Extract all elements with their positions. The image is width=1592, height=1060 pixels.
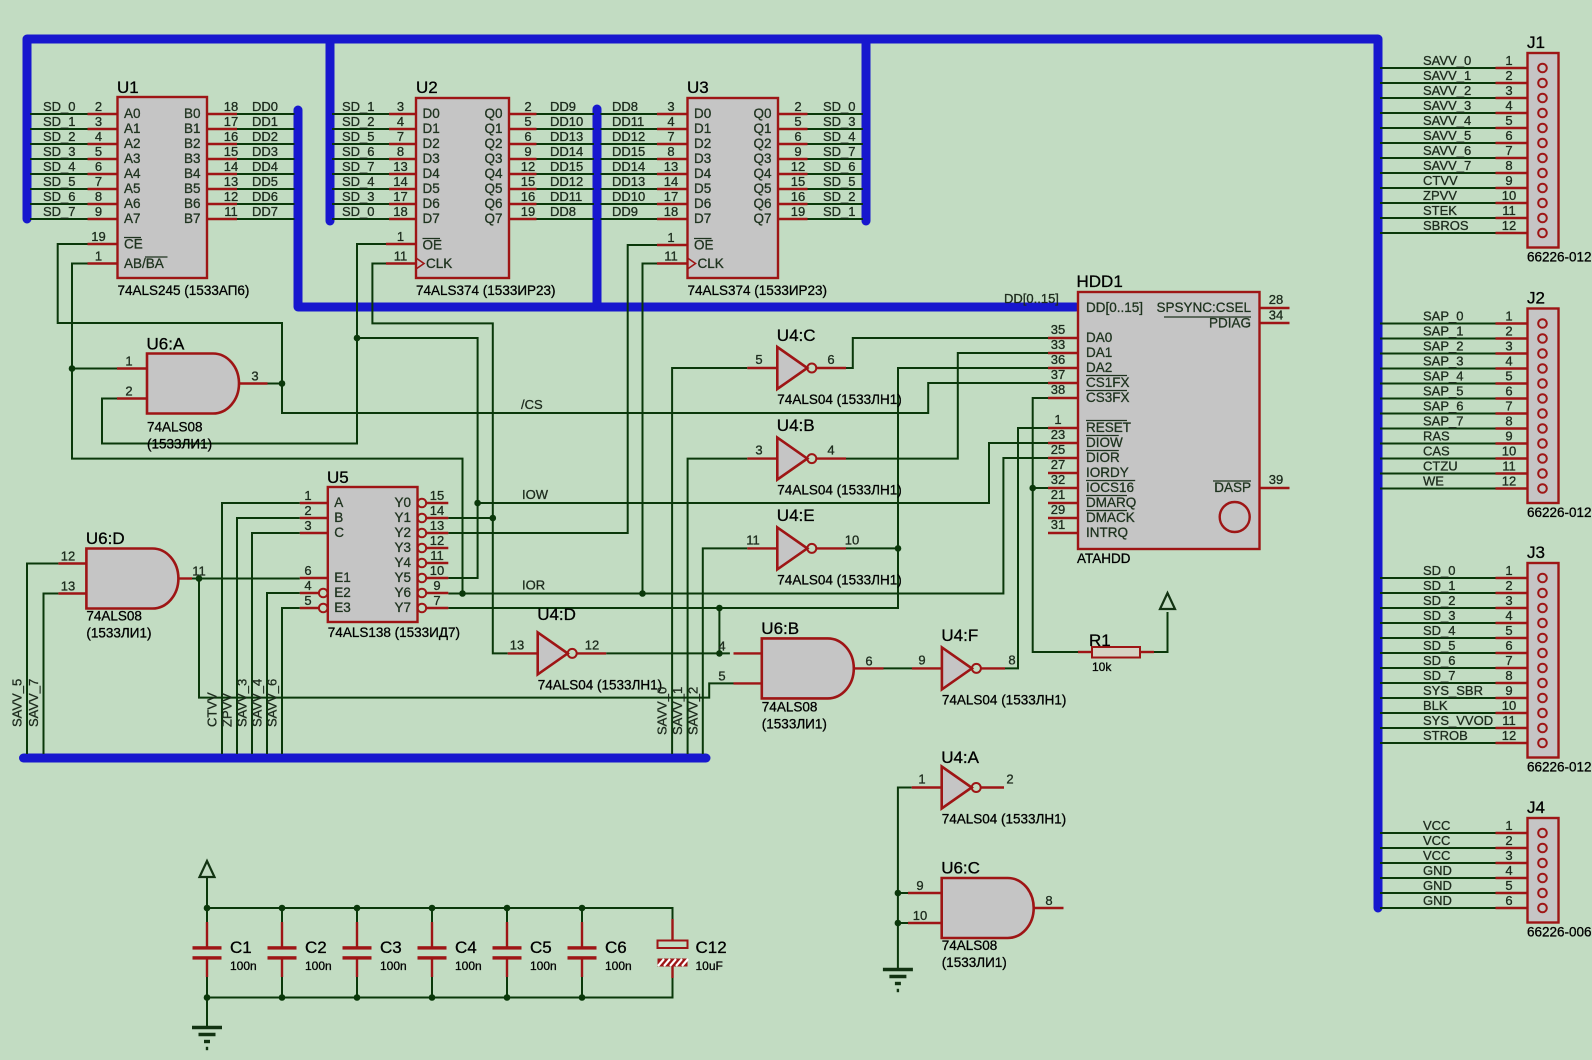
svg-text:8: 8 bbox=[1505, 414, 1512, 429]
svg-text:9: 9 bbox=[95, 204, 102, 219]
svg-text:SD_4: SD_4 bbox=[823, 129, 856, 144]
svg-text:E3: E3 bbox=[334, 600, 351, 615]
svg-text:U4:D: U4:D bbox=[537, 605, 576, 624]
svg-text:66226-012: 66226-012 bbox=[1527, 250, 1592, 265]
svg-text:74ALS08: 74ALS08 bbox=[942, 938, 998, 953]
svg-text:E2: E2 bbox=[334, 585, 351, 600]
svg-text:8: 8 bbox=[1505, 668, 1512, 683]
svg-text:SD_7: SD_7 bbox=[342, 159, 375, 174]
svg-text:CTZU: CTZU bbox=[1423, 459, 1458, 474]
svg-text:SD_5: SD_5 bbox=[823, 174, 856, 189]
svg-text:100n: 100n bbox=[305, 959, 332, 973]
svg-text:2: 2 bbox=[95, 99, 102, 114]
svg-text:SAVV_6: SAVV_6 bbox=[1423, 143, 1471, 158]
svg-text:D4: D4 bbox=[423, 166, 441, 181]
svg-text:A4: A4 bbox=[124, 166, 141, 181]
svg-text:5: 5 bbox=[1505, 623, 1512, 638]
svg-text:18: 18 bbox=[224, 99, 238, 114]
svg-text:SAVV_4: SAVV_4 bbox=[1423, 113, 1471, 128]
svg-text:A5: A5 bbox=[124, 181, 141, 196]
svg-text:12: 12 bbox=[585, 637, 599, 652]
svg-text:74ALS08: 74ALS08 bbox=[762, 700, 818, 715]
wire: net /CS U1.CE - U6:A.3 - HDD1.CS1FX bbox=[58, 244, 1048, 413]
svg-text:AB/BA: AB/BA bbox=[124, 256, 164, 271]
svg-text:7: 7 bbox=[397, 129, 404, 144]
svg-text:3: 3 bbox=[1505, 339, 1512, 354]
svg-text:8: 8 bbox=[397, 144, 404, 159]
svg-text:DD12: DD12 bbox=[550, 174, 583, 189]
svg-text:11: 11 bbox=[664, 249, 678, 264]
svg-text:7: 7 bbox=[667, 129, 674, 144]
svg-text:17: 17 bbox=[393, 189, 407, 204]
svg-text:14: 14 bbox=[430, 503, 444, 518]
inverter U4:D 74ALS04 bbox=[538, 632, 568, 674]
svg-text:32: 32 bbox=[1051, 472, 1065, 487]
svg-text:11: 11 bbox=[1502, 713, 1516, 728]
svg-text:VCC: VCC bbox=[1423, 818, 1450, 833]
svg-text:1: 1 bbox=[397, 229, 404, 244]
svg-text:5: 5 bbox=[304, 593, 311, 608]
svg-text:CTVV: CTVV bbox=[205, 692, 220, 727]
svg-text:DD1: DD1 bbox=[252, 114, 278, 129]
wire: J2 pin wires from bus bbox=[1380, 323, 1496, 325]
svg-text:A6: A6 bbox=[124, 196, 141, 211]
ground below C1 bbox=[192, 1028, 222, 1049]
svg-text:ZPVV: ZPVV bbox=[220, 693, 235, 727]
svg-text:12: 12 bbox=[521, 159, 535, 174]
svg-text:DD7: DD7 bbox=[252, 204, 278, 219]
svg-text:C: C bbox=[334, 525, 344, 540]
svg-text:3: 3 bbox=[1505, 593, 1512, 608]
svg-text:SYS_VVOD: SYS_VVOD bbox=[1423, 713, 1493, 728]
wire: U6:D output to U5.E1 bbox=[192, 578, 300, 580]
svg-text:10: 10 bbox=[1502, 444, 1516, 459]
svg-text:74ALS245 (1533АП6): 74ALS245 (1533АП6) bbox=[118, 283, 250, 298]
svg-text:7: 7 bbox=[95, 174, 102, 189]
wire: net CTVV to U5.A bbox=[222, 503, 300, 754]
svg-text:74ALS04 (1533ЛН1): 74ALS04 (1533ЛН1) bbox=[777, 483, 901, 498]
decoder U5 74ALS138 box bbox=[328, 487, 418, 622]
wire: J4 pin wires from bus bbox=[1380, 832, 1496, 834]
svg-text:D3: D3 bbox=[694, 151, 711, 166]
svg-text:17: 17 bbox=[224, 114, 238, 129]
svg-text:12: 12 bbox=[1502, 728, 1516, 743]
svg-text:D6: D6 bbox=[694, 196, 711, 211]
svg-text:13: 13 bbox=[224, 174, 238, 189]
svg-text:10k: 10k bbox=[1092, 660, 1112, 674]
svg-text:DD8: DD8 bbox=[550, 204, 576, 219]
svg-text:Y7: Y7 bbox=[394, 600, 411, 615]
svg-text:SAP_2: SAP_2 bbox=[1423, 339, 1463, 354]
buffer U1 74ALS245 box bbox=[118, 97, 208, 278]
svg-text:16: 16 bbox=[791, 189, 805, 204]
svg-text:U6:D: U6:D bbox=[86, 529, 125, 548]
svg-text:15: 15 bbox=[224, 144, 238, 159]
wire: U4:B out to HDD1.DA1 bbox=[846, 353, 1048, 459]
resistor R1 10k bbox=[1033, 651, 1078, 653]
svg-text:SD_7: SD_7 bbox=[823, 144, 856, 159]
svg-text:SAVV_1: SAVV_1 bbox=[670, 687, 685, 735]
svg-text:IOR: IOR bbox=[522, 578, 545, 593]
svg-text:Y4: Y4 bbox=[394, 555, 411, 570]
svg-text:Q0: Q0 bbox=[753, 106, 771, 121]
svg-text:U4:B: U4:B bbox=[777, 416, 815, 435]
wire: U6:A output stub link to /CS node bbox=[268, 383, 283, 385]
svg-text:Q5: Q5 bbox=[753, 181, 771, 196]
svg-text:SD_3: SD_3 bbox=[1423, 608, 1456, 623]
wire: U4:D output to U6:B.4 bbox=[606, 652, 730, 654]
svg-text:(1533ЛИ1): (1533ЛИ1) bbox=[147, 437, 212, 452]
svg-text:SYS_SBR: SYS_SBR bbox=[1423, 683, 1483, 698]
svg-text:14: 14 bbox=[224, 159, 238, 174]
svg-text:11: 11 bbox=[192, 564, 206, 579]
svg-text:3: 3 bbox=[95, 114, 102, 129]
svg-text:DD8: DD8 bbox=[612, 99, 638, 114]
svg-text:14: 14 bbox=[393, 174, 407, 189]
svg-text:8: 8 bbox=[95, 189, 102, 204]
svg-text:19: 19 bbox=[91, 229, 105, 244]
svg-text:U4:F: U4:F bbox=[941, 626, 978, 645]
svg-text:D6: D6 bbox=[423, 196, 440, 211]
and-gate U6:C 74ALS08 bbox=[942, 878, 1034, 938]
svg-text:D7: D7 bbox=[423, 211, 440, 226]
svg-text:11: 11 bbox=[1502, 203, 1516, 218]
svg-text:D0: D0 bbox=[423, 106, 440, 121]
svg-text:CLK: CLK bbox=[698, 256, 724, 271]
svg-text:J2: J2 bbox=[1527, 289, 1545, 308]
svg-text:9: 9 bbox=[918, 652, 925, 667]
svg-text:4: 4 bbox=[397, 114, 404, 129]
svg-text:16: 16 bbox=[224, 129, 238, 144]
bus: SD vertical right of U3 bbox=[862, 43, 871, 221]
svg-text:SAVV_3: SAVV_3 bbox=[1423, 98, 1471, 113]
svg-text:6: 6 bbox=[1505, 384, 1512, 399]
svg-text:2: 2 bbox=[524, 99, 531, 114]
svg-text:5: 5 bbox=[1505, 369, 1512, 384]
svg-text:6: 6 bbox=[1505, 128, 1512, 143]
svg-text:DD[0..15]: DD[0..15] bbox=[1086, 300, 1143, 315]
svg-text:8: 8 bbox=[1008, 652, 1015, 667]
svg-text:Q7: Q7 bbox=[753, 211, 771, 226]
svg-text:D5: D5 bbox=[423, 181, 440, 196]
bus: SD vertical left of U2 bbox=[326, 43, 335, 221]
svg-text:IOW: IOW bbox=[522, 487, 549, 502]
inverter U4:B 74ALS04 bbox=[777, 438, 807, 480]
svg-text:DD0: DD0 bbox=[252, 99, 278, 114]
svg-text:74ALS08: 74ALS08 bbox=[147, 420, 203, 435]
svg-text:5: 5 bbox=[1505, 113, 1512, 128]
svg-text:9: 9 bbox=[524, 144, 531, 159]
svg-text:CS1FX: CS1FX bbox=[1086, 375, 1130, 390]
and-gate U6:D 74ALS08 bbox=[86, 549, 178, 609]
wire: net SAVV_0 U4:C input drop to bus bbox=[672, 368, 747, 754]
svg-text:37: 37 bbox=[1051, 367, 1065, 382]
wire: U2 left pin wires bbox=[332, 113, 389, 115]
svg-text:2: 2 bbox=[794, 99, 801, 114]
svg-text:SD_5: SD_5 bbox=[1423, 638, 1456, 653]
svg-text:11: 11 bbox=[1502, 459, 1516, 474]
svg-text:DD5: DD5 bbox=[252, 174, 278, 189]
pin stubs U1 bbox=[88, 113, 118, 115]
bus: DD bus from U1 to HDD1 DD[0..15] bbox=[298, 110, 1076, 307]
wire: R1 to VCC arrow bbox=[1154, 612, 1168, 652]
svg-text:D2: D2 bbox=[423, 136, 440, 151]
clock triangle U3 bbox=[688, 258, 696, 269]
wire: capacitor top rail with VCC bbox=[206, 876, 208, 908]
svg-text:19: 19 bbox=[521, 204, 535, 219]
svg-text:SD_3: SD_3 bbox=[342, 189, 375, 204]
svg-text:66226-006: 66226-006 bbox=[1527, 925, 1592, 940]
svg-text:OE: OE bbox=[694, 238, 714, 253]
svg-text:C1: C1 bbox=[230, 938, 252, 957]
svg-text:CLK: CLK bbox=[426, 256, 452, 271]
svg-text:B1: B1 bbox=[184, 121, 201, 136]
svg-text:66226-012: 66226-012 bbox=[1527, 505, 1592, 520]
svg-text:10: 10 bbox=[913, 908, 927, 923]
svg-text:17: 17 bbox=[664, 189, 678, 204]
power VCC arrow above C1 bbox=[200, 861, 215, 877]
svg-text:1: 1 bbox=[95, 249, 102, 264]
svg-text:DD13: DD13 bbox=[612, 174, 645, 189]
wire: U1 left SD_0..SD_7 pin wires bbox=[30, 113, 88, 115]
wire: net SAVV_4 to U5.E2 bbox=[267, 593, 300, 754]
svg-text:DD11: DD11 bbox=[550, 189, 582, 204]
svg-text:15: 15 bbox=[791, 174, 805, 189]
svg-text:3: 3 bbox=[667, 99, 674, 114]
wire: J3 pin wires from bus bbox=[1380, 577, 1496, 579]
U5 output/enable bubbles bbox=[418, 499, 427, 508]
bus: main SD/top bus with left and right verticals bbox=[27, 39, 1378, 908]
pin stubs U5 bbox=[300, 502, 328, 504]
svg-text:SD_2: SD_2 bbox=[43, 129, 76, 144]
svg-text:DD10: DD10 bbox=[550, 114, 583, 129]
svg-text:STROB: STROB bbox=[1423, 728, 1468, 743]
svg-text:7: 7 bbox=[1505, 143, 1512, 158]
svg-text:DD11: DD11 bbox=[612, 114, 644, 129]
svg-text:B3: B3 bbox=[184, 151, 201, 166]
svg-text:SD_2: SD_2 bbox=[823, 189, 856, 204]
wire: capacitor leads bbox=[206, 908, 208, 924]
svg-text:6: 6 bbox=[95, 159, 102, 174]
svg-text:SD_7: SD_7 bbox=[43, 204, 76, 219]
svg-text:/CS: /CS bbox=[521, 397, 543, 412]
svg-text:CS3FX: CS3FX bbox=[1086, 390, 1130, 405]
svg-text:DIOW: DIOW bbox=[1086, 435, 1123, 450]
svg-text:U4:A: U4:A bbox=[941, 748, 979, 767]
wire: IOCS16 branch bbox=[1033, 487, 1048, 489]
svg-text:Q6: Q6 bbox=[484, 196, 502, 211]
capacitors C1-C6 100n bbox=[206, 922, 208, 947]
svg-text:SD_7: SD_7 bbox=[1423, 668, 1456, 683]
svg-text:12: 12 bbox=[61, 549, 75, 564]
pin stubs HDD1 bbox=[1048, 337, 1078, 339]
wire: capacitor bottom rail bbox=[207, 978, 673, 998]
wire: U3 left pin wires bbox=[601, 113, 658, 115]
svg-text:U1: U1 bbox=[117, 78, 139, 97]
svg-text:B4: B4 bbox=[184, 166, 201, 181]
svg-text:9: 9 bbox=[916, 878, 923, 893]
svg-text:1: 1 bbox=[1505, 563, 1512, 578]
svg-text:Y2: Y2 bbox=[394, 525, 411, 540]
svg-text:9: 9 bbox=[1505, 683, 1512, 698]
wire: Y1 stub branch bbox=[448, 517, 493, 519]
svg-text:SAVV_5: SAVV_5 bbox=[10, 679, 25, 727]
svg-text:74ALS04 (1533ЛН1): 74ALS04 (1533ЛН1) bbox=[777, 392, 901, 407]
svg-text:5: 5 bbox=[1505, 878, 1512, 893]
svg-text:DD15: DD15 bbox=[612, 144, 645, 159]
svg-text:SAP_5: SAP_5 bbox=[1423, 384, 1463, 399]
svg-text:100n: 100n bbox=[605, 959, 632, 973]
svg-text:D4: D4 bbox=[694, 166, 712, 181]
wire: HDD1.CS3FX - IOCS16 - R1 bbox=[1033, 398, 1078, 652]
svg-text:11: 11 bbox=[394, 249, 408, 264]
wire: net SAVV_2 U4:E input drop to bus bbox=[703, 548, 748, 754]
svg-text:U6:A: U6:A bbox=[147, 335, 185, 354]
wire: net SAVV_6 to U5.E3 bbox=[282, 608, 300, 754]
svg-text:IORDY: IORDY bbox=[1086, 465, 1129, 480]
svg-text:Q4: Q4 bbox=[753, 166, 772, 181]
and-gate U6:B 74ALS08 bbox=[762, 638, 854, 698]
svg-text:74ALS08: 74ALS08 bbox=[86, 609, 142, 624]
wire: net U3.CLK to IOR line bbox=[643, 264, 658, 594]
svg-text:Q6: Q6 bbox=[753, 196, 771, 211]
svg-text:DD[0..15]: DD[0..15] bbox=[1004, 291, 1059, 306]
svg-text:36: 36 bbox=[1051, 352, 1065, 367]
svg-text:1: 1 bbox=[125, 354, 132, 369]
svg-text:2: 2 bbox=[1006, 772, 1013, 787]
svg-text:6: 6 bbox=[1505, 638, 1512, 653]
svg-text:SAVV_6: SAVV_6 bbox=[265, 679, 280, 727]
svg-text:2: 2 bbox=[1505, 578, 1512, 593]
svg-text:10: 10 bbox=[1502, 698, 1516, 713]
svg-text:DASP: DASP bbox=[1214, 480, 1251, 495]
svg-text:74ALS04 (1533ЛН1): 74ALS04 (1533ЛН1) bbox=[942, 693, 1066, 708]
svg-text:SAVV_3: SAVV_3 bbox=[235, 679, 250, 727]
svg-text:B0: B0 bbox=[184, 106, 201, 121]
svg-text:4: 4 bbox=[1505, 98, 1512, 113]
svg-text:Q1: Q1 bbox=[484, 121, 502, 136]
svg-text:8: 8 bbox=[667, 144, 674, 159]
svg-text:SAVV_4: SAVV_4 bbox=[250, 679, 265, 727]
svg-text:1: 1 bbox=[667, 230, 674, 245]
svg-text:SD_2: SD_2 bbox=[342, 114, 375, 129]
svg-text:SD_6: SD_6 bbox=[342, 144, 375, 159]
svg-text:SAVV_0: SAVV_0 bbox=[655, 687, 670, 735]
svg-text:28: 28 bbox=[1269, 292, 1283, 307]
svg-text:3: 3 bbox=[397, 99, 404, 114]
svg-text:Q2: Q2 bbox=[484, 136, 502, 151]
svg-text:12: 12 bbox=[1502, 218, 1516, 233]
svg-text:DMACK: DMACK bbox=[1086, 510, 1135, 525]
svg-text:74ALS374 (1533ИР23): 74ALS374 (1533ИР23) bbox=[688, 283, 828, 298]
svg-text:D1: D1 bbox=[694, 121, 711, 136]
svg-text:J3: J3 bbox=[1527, 543, 1545, 562]
svg-text:VCC: VCC bbox=[1423, 833, 1450, 848]
svg-text:4: 4 bbox=[304, 578, 311, 593]
svg-text:4: 4 bbox=[1505, 354, 1512, 369]
svg-text:U3: U3 bbox=[687, 78, 709, 97]
svg-text:2: 2 bbox=[1505, 324, 1512, 339]
svg-text:1: 1 bbox=[918, 772, 925, 787]
wire: J1 pin wires from bus bbox=[1380, 67, 1496, 69]
svg-text:11: 11 bbox=[430, 548, 444, 563]
svg-text:8: 8 bbox=[1045, 893, 1052, 908]
svg-text:U6:C: U6:C bbox=[941, 859, 980, 878]
svg-text:7: 7 bbox=[1505, 399, 1512, 414]
svg-text:SAVV_5: SAVV_5 bbox=[1423, 128, 1471, 143]
svg-text:R1: R1 bbox=[1089, 631, 1111, 650]
svg-text:100n: 100n bbox=[230, 959, 257, 973]
svg-text:74ALS04 (1533ЛН1): 74ALS04 (1533ЛН1) bbox=[777, 573, 901, 588]
svg-text:DA0: DA0 bbox=[1086, 330, 1112, 345]
svg-text:16: 16 bbox=[521, 189, 535, 204]
svg-text:3: 3 bbox=[1505, 83, 1512, 98]
svg-text:4: 4 bbox=[1505, 608, 1512, 623]
svg-text:SBROS: SBROS bbox=[1423, 218, 1469, 233]
svg-text:9: 9 bbox=[1505, 429, 1512, 444]
svg-text:Y6: Y6 bbox=[394, 585, 411, 600]
svg-text:12: 12 bbox=[224, 189, 238, 204]
svg-text:100n: 100n bbox=[530, 959, 557, 973]
inverter U4:C 74ALS04 bbox=[777, 347, 807, 389]
wire: U4:F out to HDD1.RESET bbox=[1005, 428, 1048, 668]
svg-text:4: 4 bbox=[1505, 863, 1512, 878]
svg-text:66226-012: 66226-012 bbox=[1527, 760, 1592, 775]
svg-text:2: 2 bbox=[1505, 68, 1512, 83]
svg-text:SD_3: SD_3 bbox=[43, 144, 76, 159]
svg-text:31: 31 bbox=[1051, 517, 1065, 532]
svg-text:SD_6: SD_6 bbox=[823, 159, 856, 174]
pin stubs U3 bbox=[657, 113, 688, 115]
gate stubs U6:D bbox=[58, 562, 86, 564]
svg-text:Y5: Y5 bbox=[394, 570, 411, 585]
wire: U3 right pin wires bbox=[808, 113, 864, 115]
svg-text:1: 1 bbox=[1054, 412, 1061, 427]
svg-text:D3: D3 bbox=[423, 151, 440, 166]
svg-text:10uF: 10uF bbox=[696, 959, 723, 973]
wire: net SAVV_7 U6:D.13 to bus bbox=[44, 594, 59, 755]
svg-text:SAVV_7: SAVV_7 bbox=[1423, 158, 1471, 173]
clock triangle U2 bbox=[416, 258, 424, 269]
and-gate U6:A 74ALS08 bbox=[147, 354, 239, 414]
svg-text:U4:E: U4:E bbox=[777, 506, 815, 525]
svg-text:A7: A7 bbox=[124, 211, 141, 226]
ground below U6:C inputs bbox=[883, 970, 913, 991]
svg-text:DD10: DD10 bbox=[612, 189, 645, 204]
svg-text:BLK: BLK bbox=[1423, 698, 1448, 713]
register U3 74ALS374 box bbox=[688, 98, 779, 278]
svg-text:J4: J4 bbox=[1527, 798, 1545, 817]
svg-text:SAVV_2: SAVV_2 bbox=[1423, 83, 1471, 98]
svg-text:HDD1: HDD1 bbox=[1077, 272, 1123, 291]
svg-text:SD_1: SD_1 bbox=[823, 204, 856, 219]
svg-text:A: A bbox=[334, 495, 343, 510]
svg-text:SAVV_0: SAVV_0 bbox=[1423, 53, 1471, 68]
svg-text:SAVV_1: SAVV_1 bbox=[1423, 68, 1471, 83]
svg-text:SD_5: SD_5 bbox=[43, 174, 76, 189]
svg-text:VCC: VCC bbox=[1423, 848, 1450, 863]
svg-text:B5: B5 bbox=[184, 181, 201, 196]
svg-text:A0: A0 bbox=[124, 106, 141, 121]
svg-text:DD6: DD6 bbox=[252, 189, 278, 204]
svg-text:GND: GND bbox=[1423, 878, 1452, 893]
svg-text:100n: 100n bbox=[455, 959, 482, 973]
svg-text:(1533ЛИ1): (1533ЛИ1) bbox=[762, 717, 827, 732]
wire: U6:B out to U4:F in bbox=[884, 667, 913, 669]
svg-text:SD_4: SD_4 bbox=[342, 174, 375, 189]
svg-text:2: 2 bbox=[1505, 833, 1512, 848]
svg-text:6: 6 bbox=[524, 129, 531, 144]
